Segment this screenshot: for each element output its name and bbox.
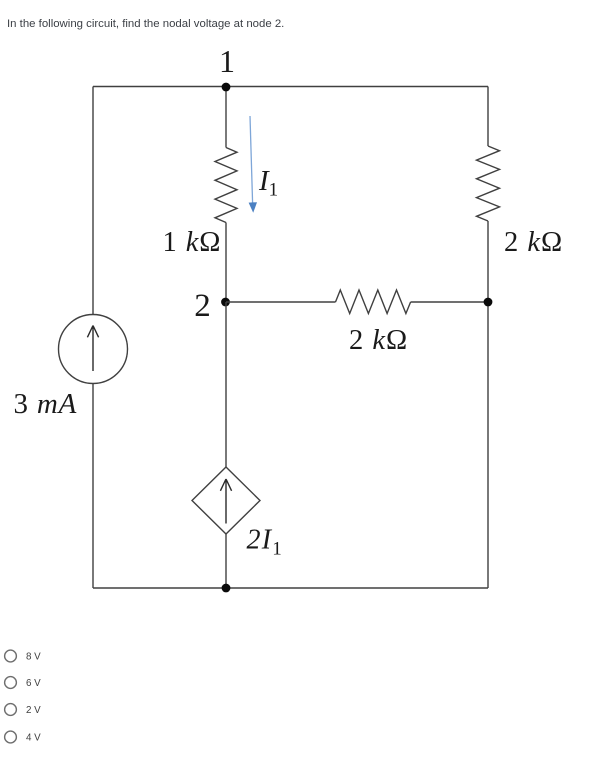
resistor R1 1k middle branch <box>215 148 237 223</box>
wire: middle branch top segment <box>225 87 227 148</box>
wire: right side lower <box>487 221 489 588</box>
svg-text:6 V: 6 V <box>26 678 41 689</box>
svg-text:1 kΩ: 1 kΩ <box>163 227 222 258</box>
dependent source arrow <box>220 479 231 524</box>
svg-text:2 kΩ: 2 kΩ <box>504 227 563 258</box>
wire: right side upper <box>487 87 489 147</box>
svg-text:2 kΩ: 2 kΩ <box>349 325 408 356</box>
wire: middle branch between resistor and node 2 <box>225 223 227 303</box>
node right dot <box>484 298 493 307</box>
svg-text:8 V: 8 V <box>26 652 41 663</box>
node 1 dot <box>222 83 231 92</box>
svg-text:I1: I1 <box>258 165 278 201</box>
svg-text:In the following circuit, find: In the following circuit, find the nodal… <box>7 18 284 30</box>
radio option 2V <box>5 704 42 716</box>
wire: middle branch diamond to bottom <box>225 534 227 588</box>
svg-text:3 mA: 3 mA <box>14 388 78 420</box>
wire: horizontal middle left part <box>226 301 336 303</box>
wire: outer rectangle left side <box>92 87 94 589</box>
resistor 2k right branch <box>477 146 500 221</box>
svg-text:1: 1 <box>219 43 235 79</box>
resistor 2k middle horizontal <box>336 290 411 314</box>
current source arrow <box>87 326 98 372</box>
wire: top side <box>93 86 488 88</box>
svg-text:4 V: 4 V <box>26 733 41 744</box>
radio option 8V <box>5 650 42 662</box>
svg-text:2I1: 2I1 <box>247 524 283 559</box>
wire: middle branch node2 to diamond <box>225 302 227 467</box>
radio option 4V <box>5 731 42 743</box>
wire: bottom side <box>93 587 488 589</box>
svg-text:2: 2 <box>194 288 211 324</box>
node bottom dot <box>222 584 231 593</box>
dependent source 2I1 diamond <box>192 467 260 534</box>
svg-text:2 V: 2 V <box>26 705 41 716</box>
current arrow I1 (blue) <box>249 116 257 213</box>
current source 3mA circle <box>59 315 128 384</box>
wire: horizontal middle right part <box>411 301 488 303</box>
node 2 dot <box>221 298 230 307</box>
radio option 6V <box>5 677 42 689</box>
